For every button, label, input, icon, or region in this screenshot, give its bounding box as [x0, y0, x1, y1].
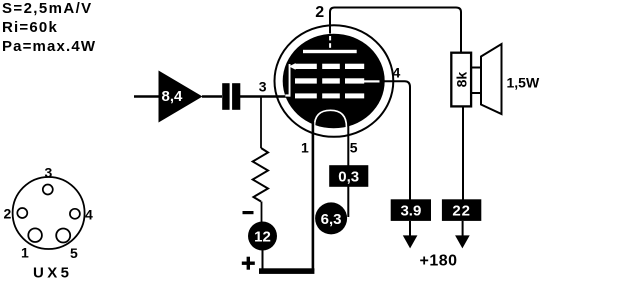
svg-text:3: 3: [45, 165, 53, 181]
supply arrow right: [455, 235, 470, 248]
grid row 3 dashes: [295, 93, 317, 98]
socket pin hole 3: [43, 185, 53, 195]
svg-text:5: 5: [350, 140, 358, 156]
svg-text:0,3: 0,3: [338, 169, 359, 186]
svg-text:4: 4: [85, 207, 93, 223]
grid row 1 dashes: [295, 64, 317, 69]
screen grid pin 4 white link: [364, 80, 380, 82]
filament voltage label 6,3: [315, 202, 347, 234]
coupling capacitor: [222, 83, 240, 110]
socket pin hole 1: [28, 228, 42, 242]
output transformer box 8k: [451, 53, 471, 107]
anode lead dashes inside disc: [329, 36, 331, 40]
socket pin hole 2: [17, 208, 27, 218]
grid resistor zigzag: [253, 148, 268, 202]
wire input lead: [134, 95, 159, 97]
supply arrow left: [403, 235, 418, 248]
wire triangle to capacitor: [202, 95, 222, 97]
svg-text:Ri=60k: Ri=60k: [2, 19, 58, 36]
wire battery to bus: [262, 250, 264, 271]
wire resistor to battery: [261, 202, 263, 224]
current label 0,3: [329, 165, 368, 187]
wire 22 box to arrow: [462, 221, 464, 237]
wire speaker box to 22 box: [462, 106, 464, 200]
svg-text:3: 3: [259, 79, 267, 95]
plus sign: [242, 262, 255, 265]
wire pin 1 filament down to bus: [312, 122, 315, 271]
filament arc: [314, 110, 346, 127]
tube V1 inner black disc: [283, 34, 385, 129]
wire 3.9 box to arrow: [409, 221, 411, 237]
bus bar bottom: [259, 268, 314, 274]
svg-text:2: 2: [315, 4, 324, 21]
speaker horn: [481, 44, 502, 114]
svg-text:8k: 8k: [453, 72, 469, 88]
anode plate bar: [303, 50, 357, 53]
svg-text:Pa=max.4W: Pa=max.4W: [2, 38, 96, 55]
svg-text:1: 1: [301, 140, 309, 156]
wire 0,3 box to 6,3 circle: [347, 186, 349, 217]
wire capacitor to grid pin 3: [239, 95, 287, 97]
socket UX5 circle: [13, 177, 85, 249]
svg-text:2: 2: [4, 206, 12, 222]
grid pin 3 white link: [285, 94, 290, 96]
svg-text:22: 22: [452, 203, 471, 220]
speaker driver links: [471, 67, 481, 69]
svg-text:+180: +180: [420, 252, 458, 269]
grid resistor lead: [260, 97, 262, 149]
svg-text:12: 12: [254, 229, 271, 246]
socket pin hole 5: [56, 229, 70, 243]
svg-text:4: 4: [393, 65, 401, 81]
svg-text:6,3: 6,3: [321, 211, 342, 228]
svg-text:3.9: 3.9: [400, 203, 421, 220]
supply dropping label 22: [442, 199, 481, 221]
wire pin 2 anode to top rail and down to output: [330, 8, 461, 55]
svg-text:8,4: 8,4: [162, 88, 184, 105]
minus sign: [243, 211, 254, 214]
svg-text:1,5W: 1,5W: [507, 75, 540, 91]
svg-text:1: 1: [21, 245, 29, 261]
battery 12V circle: [248, 222, 277, 251]
wire pin 5 filament down to 0,3 box: [347, 122, 349, 166]
grid row 2 dashes: [295, 78, 317, 83]
control grid support rod with arrow: [289, 64, 291, 97]
screen dropping label 3.9: [391, 199, 431, 221]
svg-text:5: 5: [70, 245, 78, 261]
socket pin hole 4: [70, 209, 80, 219]
signal source triangle 8,4: [159, 71, 203, 123]
wire pin 4 to screen resistor: [382, 81, 410, 199]
svg-text:UX5: UX5: [33, 264, 72, 281]
svg-text:S=2,5mA/V: S=2,5mA/V: [2, 0, 93, 17]
tube V1 envelope: [275, 25, 394, 137]
